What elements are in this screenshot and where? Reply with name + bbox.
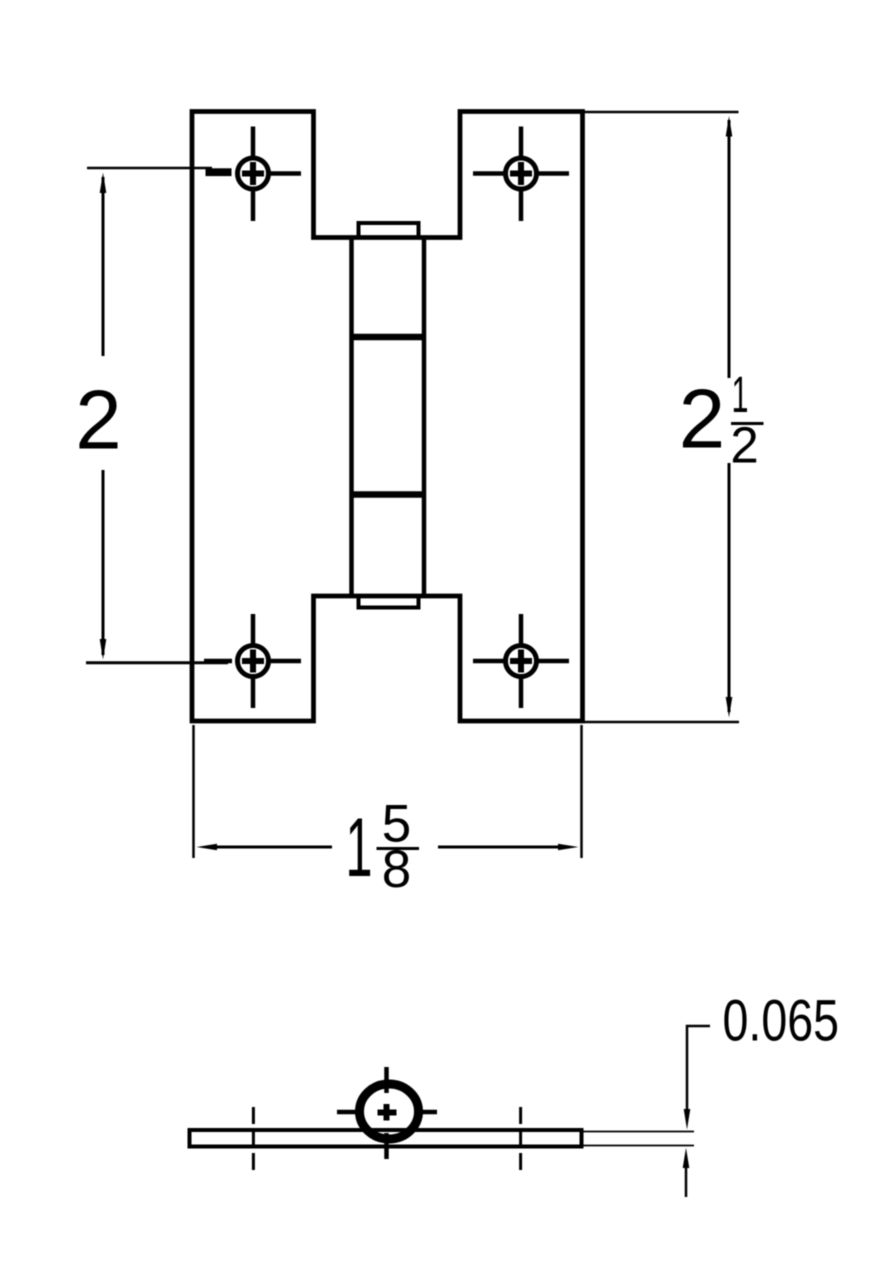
svg-text:0.065: 0.065 <box>723 989 840 1054</box>
svg-text:2: 2 <box>730 417 758 474</box>
right dim arrow up <box>726 116 733 137</box>
right dim arrow down <box>726 697 733 718</box>
left dim arrow down <box>100 639 107 660</box>
right dim extension line top <box>585 111 739 114</box>
knuckle divider upper <box>352 334 425 341</box>
bottom dim line left segment <box>214 846 332 849</box>
screw hole top-right <box>473 127 569 222</box>
screw hole bottom-left <box>204 614 301 708</box>
pin end rect top <box>359 223 419 238</box>
pin end rect bottom <box>359 596 419 608</box>
bottom dim arrow right <box>558 844 579 851</box>
bottom dim line right segment <box>438 846 558 849</box>
barrel center mark horizontal <box>337 1110 437 1115</box>
left dim extension line top <box>87 167 212 170</box>
svg-text:1: 1 <box>732 366 749 423</box>
bottom dim extension line left <box>192 725 195 858</box>
knuckle divider lower <box>352 491 425 498</box>
side view plate <box>190 1130 582 1147</box>
plate edge extension thin line bottom <box>582 1145 695 1147</box>
thickness dim arrow down <box>684 1109 691 1130</box>
left dim line upper segment <box>102 177 105 356</box>
svg-text:2: 2 <box>75 373 121 467</box>
thickness dim leader jog <box>687 1026 710 1112</box>
dim text 1/2 bar <box>731 422 764 425</box>
right dim line upper segment <box>728 120 731 378</box>
thickness dim arrow up with shaft <box>683 1148 690 1168</box>
barrel circle (side view) <box>360 1084 419 1139</box>
barrel right edge <box>422 238 427 597</box>
left dim extension line bottom <box>86 661 228 664</box>
hinge outline (front view H-shape) <box>192 112 583 722</box>
left dim line lower segment <box>102 470 105 655</box>
barrel left edge <box>349 238 354 597</box>
screw hole top-left <box>206 127 302 222</box>
screw centerline left (side view) <box>252 1107 255 1170</box>
right dim extension line bottom <box>585 721 740 724</box>
plate edge extension thin line top <box>582 1131 695 1133</box>
svg-text:1: 1 <box>346 800 373 894</box>
barrel center mark vertical <box>384 1067 389 1159</box>
screw centerline right (side view) <box>519 1107 522 1170</box>
right dim line lower segment <box>728 463 731 712</box>
bottom dim extension line right <box>580 725 583 858</box>
bottom dim arrow left <box>197 844 218 851</box>
dim text 5/8 bar <box>377 847 420 850</box>
svg-text:8: 8 <box>382 840 411 899</box>
svg-text:2: 2 <box>679 372 725 466</box>
screw hole bottom-right <box>473 614 569 708</box>
left dim arrow up <box>100 173 107 194</box>
